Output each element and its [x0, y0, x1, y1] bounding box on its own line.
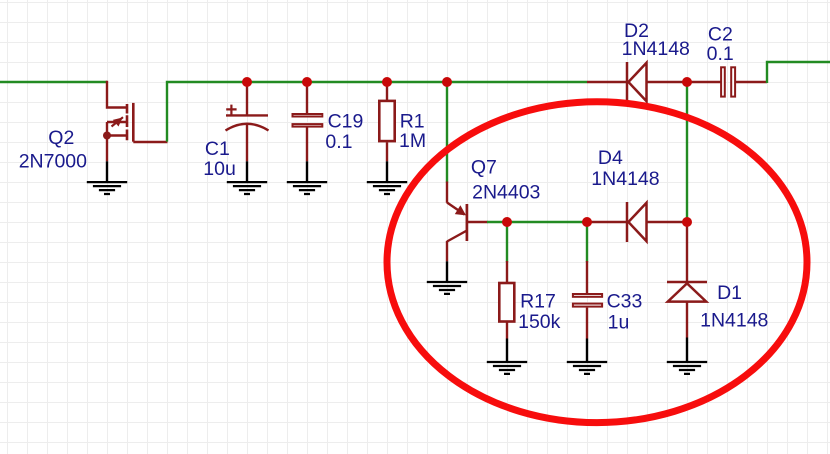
resistor R1 1M [386, 81, 388, 100]
junction dot C19 [302, 77, 312, 87]
svg-text:C19: C19 [328, 110, 364, 132]
wire net IN left rail [0, 81, 107, 83]
svg-text:C2: C2 [708, 23, 733, 45]
wire D2out vertical [686, 82, 688, 222]
svg-text:0.1: 0.1 [707, 43, 734, 65]
ground D1 [667, 362, 707, 374]
ground C1 [227, 182, 267, 194]
junction dot Q2 source [103, 132, 111, 140]
ground C33 [567, 362, 607, 374]
capacitor C2 0.1 [687, 81, 721, 83]
junction dot base-R17 [502, 217, 512, 227]
transistor Q2 2N7000 [107, 103, 168, 142]
ground R1 [367, 182, 407, 194]
capacitor C19 0.1 [306, 81, 308, 114]
diode D2 1N4148 [587, 81, 627, 83]
svg-text:C1: C1 [205, 138, 230, 160]
svg-text:D1: D1 [717, 282, 742, 304]
svg-text:10u: 10u [203, 158, 236, 180]
ground C19 [287, 182, 327, 194]
svg-text:R17: R17 [520, 290, 556, 312]
wire C33 net [586, 222, 588, 262]
junction dot R1 [382, 77, 392, 87]
diode D1 1N4148 [686, 222, 688, 282]
wire base net [487, 221, 587, 223]
annotation red ellipse [387, 102, 807, 423]
svg-text:1N4148: 1N4148 [700, 309, 768, 331]
svg-text:1N4148: 1N4148 [622, 38, 690, 60]
svg-text:2N4403: 2N4403 [472, 182, 540, 204]
svg-text:Q2: Q2 [48, 127, 74, 149]
svg-text:1M: 1M [399, 130, 426, 152]
junction dot rail-Q7 [442, 77, 452, 87]
svg-text:C33: C33 [607, 290, 643, 312]
junction dot base-C33 [582, 217, 592, 227]
wire R17 net [506, 222, 508, 262]
junction dot D2-C2 [682, 77, 692, 87]
svg-text:0.1: 0.1 [325, 131, 352, 153]
junction dot C1 [242, 77, 252, 87]
svg-text:Q7: Q7 [471, 156, 497, 178]
ground R17 [487, 362, 527, 374]
transistor Q7 2N4403 [447, 182, 488, 262]
svg-text:1u: 1u [608, 311, 630, 333]
svg-text:1N4148: 1N4148 [591, 168, 659, 190]
capacitor C1 10u [246, 81, 248, 116]
diode D4 1N4148 [587, 221, 627, 223]
ground Q7 [427, 282, 467, 294]
capacitor C33 1u [586, 261, 588, 293]
wire OUT top right [767, 62, 830, 83]
wire main rail [167, 82, 587, 142]
svg-text:150k: 150k [518, 311, 561, 333]
resistor R17 150k [506, 261, 508, 283]
wire drain lead Q2 [107, 81, 128, 108]
wire Q7 emitter net [446, 82, 448, 183]
svg-text:2N7000: 2N7000 [19, 151, 87, 173]
junction dot base-D1 [682, 217, 692, 227]
ground Q2 [87, 182, 127, 194]
svg-text:D4: D4 [598, 147, 623, 169]
wire source to ground Q2 [106, 136, 108, 162]
